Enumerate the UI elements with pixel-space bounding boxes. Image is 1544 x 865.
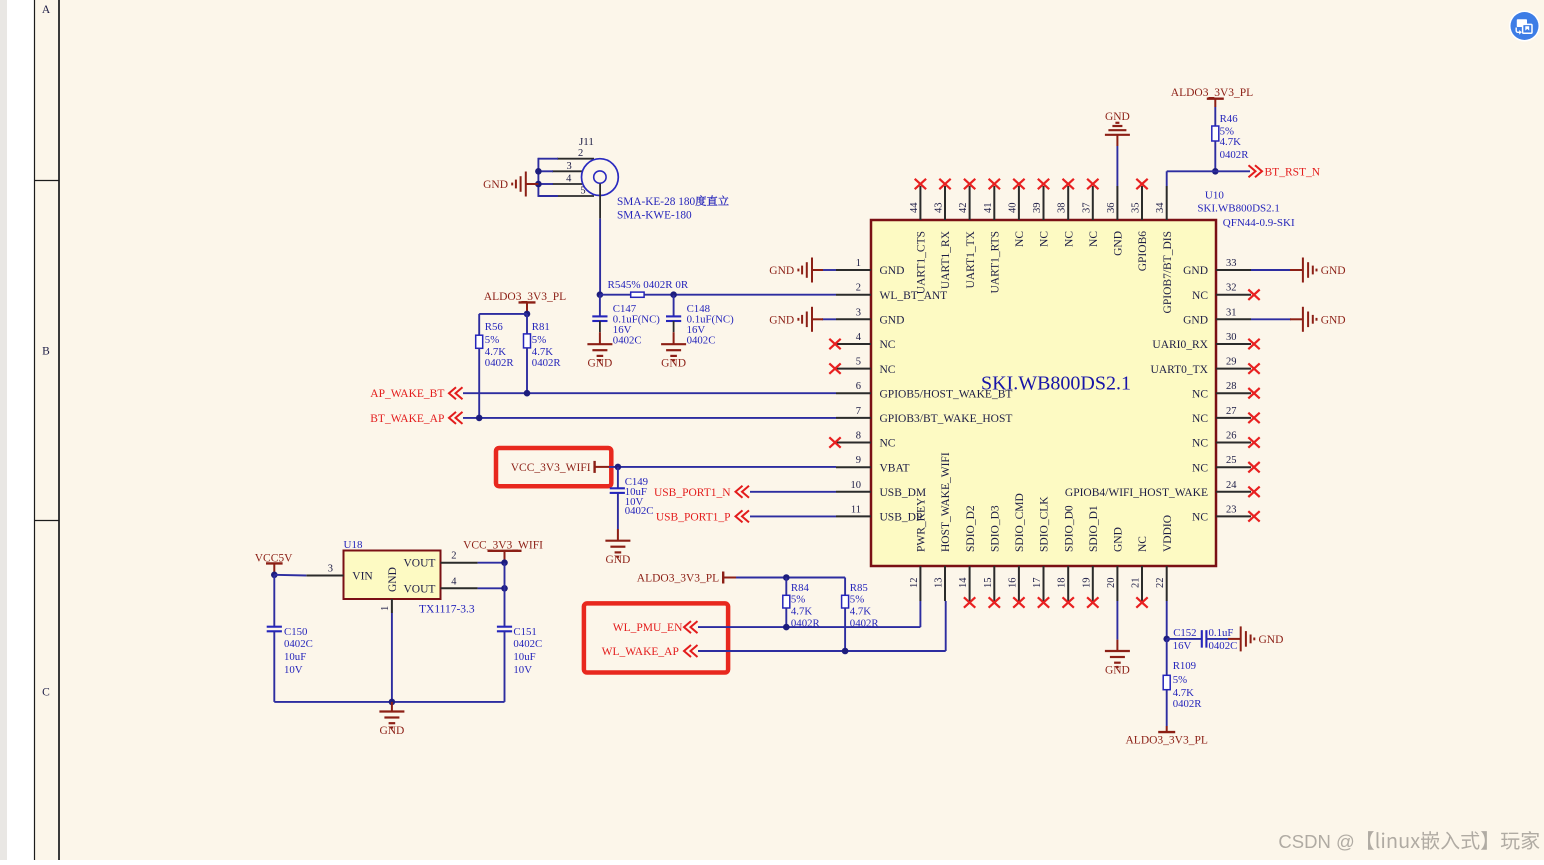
svg-text:U10: U10 — [1205, 189, 1224, 201]
wire node to BT_RST_N port — [1215, 170, 1250, 172]
capacitor C148 — [666, 295, 734, 347]
pin 36 GND — [1106, 186, 1125, 256]
connector J11 SMA — [552, 136, 618, 219]
svg-text:ALDO3_3V3_PL: ALDO3_3V3_PL — [1171, 87, 1253, 99]
svg-text:UART0_TX: UART0_TX — [1151, 364, 1209, 376]
svg-text:NC: NC — [1192, 388, 1208, 400]
svg-text:4.7K: 4.7K — [791, 606, 812, 618]
svg-text:WL_WAKE_AP: WL_WAKE_AP — [602, 646, 679, 658]
ground at J11 — [483, 172, 538, 197]
ground at pin 1 — [769, 258, 823, 283]
wire rail to R84/R85 — [736, 577, 845, 579]
junction VOUT2 node — [501, 559, 508, 566]
pin 42 UART1_TX — [958, 179, 977, 289]
pin 20 GND — [1106, 527, 1125, 601]
svg-text:UART1_RTS: UART1_RTS — [990, 231, 1002, 294]
svg-text:UART1_RX: UART1_RX — [940, 230, 952, 289]
capacitor C149 — [610, 467, 654, 529]
svg-text:25: 25 — [1226, 455, 1237, 466]
wire VOUT2 to node — [478, 562, 505, 564]
pin 9 VBAT — [836, 455, 910, 474]
svg-text:R109: R109 — [1173, 660, 1196, 672]
svg-text:C151: C151 — [513, 626, 536, 638]
svg-text:GPIOB4/WIFI_HOST_WAKE: GPIOB4/WIFI_HOST_WAKE — [1065, 487, 1208, 499]
label SMA-KE-28 180度直立 — [617, 195, 729, 208]
svg-text:NC: NC — [1192, 462, 1208, 474]
pin 17 SDIO_CLK — [1032, 496, 1051, 608]
ground under pin 20 — [1105, 640, 1130, 677]
svg-text:0402C: 0402C — [687, 334, 716, 346]
svg-text:43: 43 — [934, 203, 945, 214]
svg-text:SDIO_D3: SDIO_D3 — [990, 505, 1002, 552]
svg-text:R56: R56 — [485, 321, 504, 333]
wire J11 to node — [599, 219, 601, 295]
svg-text:4: 4 — [451, 576, 457, 587]
ground at pin 3 — [769, 307, 823, 332]
frame row label C — [42, 687, 50, 699]
svg-text:CSDN @: CSDN @ — [1278, 831, 1354, 852]
svg-text:0402C: 0402C — [284, 638, 313, 650]
power flag ALDO3_3V3_PL at R46 — [1171, 87, 1253, 107]
pin 44 UART1_CTS — [909, 179, 928, 294]
svg-text:GND: GND — [1183, 315, 1208, 327]
svg-text:NC: NC — [880, 339, 896, 351]
wire VOUT4 to node — [478, 587, 505, 589]
svg-text:NC: NC — [1063, 231, 1075, 247]
pin 24 GPIOB4/WIFI_HOST_WAKE — [1065, 480, 1260, 499]
svg-text:GND: GND — [587, 358, 612, 370]
ground under U18 — [379, 702, 404, 737]
junction R81 top — [524, 311, 531, 318]
svg-text:38: 38 — [1057, 203, 1068, 214]
pin 4 NC — [829, 332, 896, 351]
svg-text:NC: NC — [1192, 512, 1208, 524]
junction VOUT4 node — [501, 585, 508, 592]
wire BT_WAKE_AP to pin 7 — [463, 417, 836, 419]
wire pin 3 gnd — [822, 318, 836, 320]
wire node to R54 — [600, 294, 631, 296]
junction J11 pin3 — [535, 168, 542, 175]
svg-text:5%: 5% — [532, 334, 546, 346]
svg-text:17: 17 — [1032, 578, 1043, 589]
ground under C147 — [587, 332, 612, 369]
pin 16 SDIO_CMD — [1007, 493, 1026, 607]
wire pin 36 gnd — [1116, 146, 1118, 186]
pin 3 GND — [836, 307, 904, 326]
power flag VCC5V — [255, 552, 293, 575]
capacitor C150 — [267, 575, 313, 702]
svg-text:4.7K: 4.7K — [850, 606, 871, 618]
net port BT_RST_N — [1249, 165, 1321, 178]
net port USB_PORT1_N — [654, 486, 749, 499]
svg-text:SDIO_D1: SDIO_D1 — [1088, 505, 1100, 552]
label SMA-KWE-180 — [617, 210, 692, 222]
pin 43 UART1_RX — [934, 179, 953, 289]
svg-text:1: 1 — [380, 606, 391, 611]
svg-text:6: 6 — [856, 381, 861, 392]
pin 39 NC — [1032, 179, 1051, 247]
frame row label B — [42, 346, 50, 358]
svg-text:GND: GND — [661, 358, 686, 370]
svg-text:34: 34 — [1155, 202, 1166, 213]
svg-text:GND: GND — [605, 554, 630, 566]
svg-text:44: 44 — [909, 202, 920, 213]
svg-text:GND: GND — [769, 314, 794, 326]
svg-text:3: 3 — [856, 307, 861, 318]
svg-text:2: 2 — [578, 148, 583, 159]
ground under C148 — [661, 332, 686, 369]
svg-text:0402R: 0402R — [1173, 698, 1203, 710]
svg-text:GND: GND — [880, 315, 905, 327]
pin 26 NC — [1192, 431, 1260, 450]
svg-text:GND: GND — [483, 179, 508, 191]
pin 22 VDDIO — [1155, 515, 1174, 601]
svg-text:0.1uF: 0.1uF — [1209, 627, 1234, 639]
svg-text:5%: 5% — [791, 594, 805, 606]
svg-text:WL_BT_ANT: WL_BT_ANT — [880, 290, 948, 302]
pin 31 GND — [1183, 307, 1251, 326]
ground at pin 31 — [1290, 307, 1346, 332]
pin 38 NC — [1057, 179, 1076, 247]
svg-text:VIN: VIN — [352, 571, 373, 583]
pin 33 GND — [1183, 258, 1251, 277]
junction VBAT node — [615, 464, 622, 471]
svg-text:U18: U18 — [344, 539, 363, 551]
svg-text:GPIOB3/BT_WAKE_HOST: GPIOB3/BT_WAKE_HOST — [880, 413, 1013, 425]
pin 2 WL_BT_ANT — [836, 283, 947, 302]
svg-text:VOUT: VOUT — [404, 558, 436, 570]
svg-text:NC: NC — [1137, 536, 1149, 552]
pin 4 VOUT — [441, 576, 478, 588]
svg-text:R84: R84 — [791, 582, 810, 594]
svg-text:11: 11 — [851, 504, 861, 515]
svg-text:0402R: 0402R — [532, 357, 562, 369]
junction R56 bottom — [476, 415, 483, 422]
svg-text:30: 30 — [1226, 332, 1237, 343]
junction VDDIO node — [1163, 636, 1170, 643]
svg-text:27: 27 — [1226, 406, 1237, 417]
svg-text:29: 29 — [1226, 357, 1237, 368]
pin 40 NC — [1007, 179, 1026, 247]
svg-text:GND: GND — [880, 265, 905, 277]
pin 30 UARI0_RX — [1152, 332, 1259, 351]
svg-text:19: 19 — [1081, 578, 1092, 589]
pin 32 NC — [1192, 283, 1260, 302]
svg-text:10: 10 — [851, 480, 862, 491]
junction ground rail — [389, 699, 396, 706]
svg-text:C150: C150 — [284, 626, 307, 638]
pin 8 NC — [829, 431, 896, 450]
svg-text:C152: C152 — [1173, 627, 1196, 639]
svg-text:UART1_CTS: UART1_CTS — [916, 231, 928, 294]
svg-text:VOUT: VOUT — [404, 583, 436, 595]
power flag ALDO3_3V3_PL bottom — [1125, 726, 1207, 747]
svg-text:C: C — [42, 687, 50, 699]
svg-text:0402R: 0402R — [485, 357, 515, 369]
blue translate icon — [1509, 11, 1540, 42]
svg-text:GND: GND — [1105, 664, 1130, 676]
svg-text:BT_RST_N: BT_RST_N — [1265, 167, 1321, 179]
power flag ALDO3_3V3_PL mid — [637, 572, 736, 585]
net port USB_PORT1_P — [656, 510, 749, 523]
wire USB_PORT1_N to pin 10 — [750, 491, 836, 493]
svg-text:3: 3 — [567, 161, 572, 172]
svg-text:32: 32 — [1226, 283, 1237, 294]
IC U18 TX1117-3.3 body — [344, 539, 475, 616]
svg-text:QFN44-0.9-SKI: QFN44-0.9-SKI — [1223, 217, 1295, 229]
svg-text:22: 22 — [1155, 578, 1166, 589]
svg-text:28: 28 — [1226, 381, 1237, 392]
wire VOUT rail down — [504, 563, 506, 627]
junction R85 bottom — [842, 648, 849, 655]
svg-text:GND: GND — [1259, 634, 1284, 646]
svg-text:GND: GND — [379, 725, 404, 737]
svg-text:R46: R46 — [1220, 113, 1239, 125]
svg-text:GND: GND — [769, 265, 794, 277]
svg-text:4: 4 — [856, 332, 862, 343]
svg-text:1: 1 — [856, 258, 861, 269]
svg-text:NC: NC — [1192, 413, 1208, 425]
svg-text:GPIOB7/BT_DIS: GPIOB7/BT_DIS — [1162, 231, 1174, 313]
resistor R84 — [783, 578, 821, 630]
wire node to pin 34 — [1167, 171, 1216, 186]
junction J11 pin4 — [535, 181, 542, 188]
svg-text:GND: GND — [1321, 265, 1346, 277]
pin 18 SDIO_D0 — [1057, 505, 1076, 608]
svg-text:31: 31 — [1226, 307, 1237, 318]
net port WL_PMU_EN — [613, 621, 698, 634]
svg-text:SKI.WB800DS2.1: SKI.WB800DS2.1 — [1197, 202, 1280, 214]
pin 35 GPIOB6 — [1131, 179, 1150, 271]
pin 13 HOST_WAKE_WIFI — [934, 452, 953, 601]
svg-text:42: 42 — [958, 203, 969, 214]
svg-text:3: 3 — [328, 564, 333, 575]
svg-text:2: 2 — [856, 283, 861, 294]
wire WL_PMU_EN to pin 12 — [698, 601, 920, 627]
svg-text:24: 24 — [1226, 480, 1237, 491]
wire pin 20 to ground — [1116, 601, 1118, 640]
svg-text:39: 39 — [1032, 203, 1043, 214]
pin 10 USB_DM — [836, 480, 926, 499]
svg-text:36: 36 — [1106, 203, 1117, 214]
power flag VCC_3V3_WIFI above U18 — [463, 540, 543, 563]
junction antenna node — [597, 291, 604, 298]
svg-text:33: 33 — [1226, 258, 1237, 269]
svg-text:0402C: 0402C — [1209, 640, 1238, 652]
svg-text:23: 23 — [1226, 504, 1237, 515]
pin 12 PWR_KEY — [909, 497, 928, 601]
svg-text:NC: NC — [1192, 290, 1208, 302]
svg-text:UARI0_RX: UARI0_RX — [1152, 339, 1208, 351]
svg-text:ALDO3_3V3_PL: ALDO3_3V3_PL — [484, 291, 566, 303]
svg-text:35: 35 — [1131, 203, 1142, 214]
svg-text:USB_PORT1_P: USB_PORT1_P — [656, 511, 731, 523]
ground right of C152 — [1241, 626, 1284, 651]
wire pin 22 VDDIO down — [1166, 601, 1168, 639]
svg-text:GND: GND — [1105, 111, 1130, 123]
svg-text:10V: 10V — [513, 664, 532, 676]
svg-text:VCC_3V3_WIFI: VCC_3V3_WIFI — [511, 462, 591, 474]
svg-text:PWR_KEY: PWR_KEY — [916, 497, 928, 552]
pin 5 NC — [829, 357, 896, 376]
frame row label A — [42, 4, 51, 16]
svg-text:NC: NC — [1039, 231, 1051, 247]
pin 3 VIN — [306, 564, 343, 576]
wire R54 to pin 2 — [644, 294, 836, 296]
pin 34 GPIOB7/BT_DIS — [1155, 186, 1174, 313]
svg-text:GPIOB6: GPIOB6 — [1137, 231, 1149, 272]
pin 1 GND U18 — [380, 599, 392, 613]
frame border lines — [34, 0, 59, 860]
svg-text:0402C: 0402C — [513, 638, 542, 650]
svg-text:16: 16 — [1007, 578, 1018, 589]
svg-text:BT_WAKE_AP: BT_WAKE_AP — [370, 413, 444, 425]
svg-text:TX1117-3.3: TX1117-3.3 — [419, 604, 475, 616]
wire pin 33 gnd — [1251, 269, 1291, 271]
wire rail to R56 — [479, 314, 527, 335]
resistor R46 — [1212, 107, 1249, 171]
svg-text:USB_DM: USB_DM — [880, 487, 927, 499]
wire to pin 9 VBAT — [609, 466, 836, 468]
pin 11 USB_DP — [836, 504, 922, 523]
pin 41 UART1_RTS — [983, 179, 1002, 294]
wire pin 31 gnd — [1251, 318, 1291, 320]
red annotation box VCC_3V3_WIFI — [496, 448, 611, 486]
capacitor C147 — [592, 295, 660, 347]
svg-text:A: A — [42, 4, 51, 16]
net port WL_WAKE_AP — [602, 645, 698, 658]
svg-text:40: 40 — [1007, 203, 1018, 214]
pin 29 UART0_TX — [1151, 357, 1260, 376]
junction R81 bottom — [524, 390, 531, 397]
power flag ALDO3_3V3_PL at R56/R81 — [484, 291, 566, 314]
resistor R109 — [1163, 639, 1202, 726]
svg-text:HOST_WAKE_WIFI: HOST_WAKE_WIFI — [940, 452, 952, 552]
svg-text:4.7K: 4.7K — [1220, 136, 1241, 148]
svg-text:B: B — [42, 346, 50, 358]
svg-text:J11: J11 — [579, 136, 594, 148]
svg-text:UART1_TX: UART1_TX — [965, 230, 977, 288]
pin 1 GND — [836, 258, 904, 277]
svg-text:GND: GND — [1321, 314, 1346, 326]
junction R84 bottom — [783, 624, 790, 631]
pin 14 SDIO_D2 — [958, 505, 977, 608]
net port BT_WAKE_AP — [370, 412, 462, 425]
ground above pin 36 — [1105, 111, 1130, 146]
svg-text:21: 21 — [1131, 578, 1142, 589]
pin 7 GPIOB3/BT_WAKE_HOST — [836, 406, 1012, 425]
pin 21 NC — [1131, 536, 1150, 608]
svg-text:9: 9 — [856, 455, 861, 466]
svg-text:SMA-KWE-180: SMA-KWE-180 — [617, 210, 692, 222]
pin 37 NC — [1081, 179, 1100, 247]
wire U18 ground rail — [274, 613, 504, 702]
junction VCC5V node — [271, 572, 278, 579]
junction R84 top — [783, 574, 790, 581]
net port AP_WAKE_BT — [370, 387, 462, 400]
svg-text:12: 12 — [909, 578, 920, 589]
svg-text:5%: 5% — [485, 334, 499, 346]
svg-text:0402R: 0402R — [1220, 149, 1250, 161]
svg-text:0402C: 0402C — [613, 334, 642, 346]
svg-text:VBAT: VBAT — [880, 462, 910, 474]
resistor R56 — [476, 321, 515, 418]
red annotation box WL_PMU_EN/WL_WAKE_AP — [584, 603, 728, 672]
svg-text:GND: GND — [1183, 265, 1208, 277]
wire pin 1 gnd — [822, 269, 836, 271]
power flag VCC_3V3_WIFI at VBAT — [511, 461, 609, 474]
svg-text:13: 13 — [934, 578, 945, 589]
svg-text:4: 4 — [566, 174, 572, 185]
svg-text:10uF: 10uF — [284, 651, 306, 663]
svg-text:26: 26 — [1226, 431, 1237, 442]
svg-text:41: 41 — [983, 203, 994, 214]
IC U10 reference labels — [1197, 189, 1295, 229]
svg-text:VDDIO: VDDIO — [1162, 515, 1174, 552]
ground at pin 33 — [1290, 258, 1346, 283]
pin 28 NC — [1192, 381, 1260, 400]
svg-text:SDIO_CLK: SDIO_CLK — [1039, 496, 1051, 552]
svg-text:AP_WAKE_BT: AP_WAKE_BT — [370, 388, 444, 400]
capacitor C151 — [497, 626, 542, 702]
svg-text:4.7K: 4.7K — [1173, 687, 1194, 699]
svg-text:SMA-KE-28 180: SMA-KE-28 180 — [617, 196, 695, 208]
svg-text:8: 8 — [856, 431, 861, 442]
IC U10 SKI.WB800DS2.1 body — [871, 220, 1216, 566]
svg-text:SDIO_D0: SDIO_D0 — [1063, 505, 1075, 552]
svg-text:0402C: 0402C — [625, 505, 654, 517]
svg-text:R545% 0402R 0R: R545% 0402R 0R — [608, 279, 689, 291]
svg-text:5%: 5% — [850, 594, 864, 606]
svg-text:10uF: 10uF — [513, 651, 535, 663]
ground under C149 — [605, 529, 630, 566]
wire J11 bracket — [538, 158, 558, 197]
svg-text:NC: NC — [1014, 231, 1026, 247]
resistor R81 — [524, 314, 562, 393]
svg-text:R85: R85 — [850, 582, 868, 594]
svg-text:GND: GND — [1113, 527, 1125, 552]
resistor R85 — [842, 578, 880, 652]
svg-text:USB_PORT1_N: USB_PORT1_N — [654, 487, 731, 499]
svg-text:10V: 10V — [284, 664, 303, 676]
svg-text:18: 18 — [1057, 578, 1068, 589]
resistor R54 0R — [608, 279, 689, 298]
pin 19 SDIO_D1 — [1081, 505, 1100, 608]
svg-text:SDIO_D2: SDIO_D2 — [965, 505, 977, 552]
svg-text:NC: NC — [1192, 438, 1208, 450]
svg-text:NC: NC — [1088, 231, 1100, 247]
svg-text:14: 14 — [958, 577, 969, 588]
wire WL_WAKE_AP to pin 13 — [698, 601, 946, 651]
pin 27 NC — [1192, 406, 1260, 425]
svg-text:GND: GND — [1113, 231, 1125, 256]
svg-text:7: 7 — [856, 406, 861, 417]
junction C148 node — [670, 291, 677, 298]
svg-text:NC: NC — [880, 364, 896, 376]
wire AP_WAKE_BT to pin 6 — [463, 392, 836, 394]
watermark CSDN — [1278, 831, 1539, 852]
svg-text:SDIO_CMD: SDIO_CMD — [1014, 493, 1026, 552]
capacitor C152 — [1167, 627, 1241, 652]
svg-text:20: 20 — [1106, 578, 1117, 589]
svg-text:GND: GND — [387, 567, 399, 592]
pin 15 SDIO_D3 — [983, 505, 1002, 608]
svg-text:WL_PMU_EN: WL_PMU_EN — [613, 622, 683, 634]
pin 2 VOUT — [441, 551, 478, 563]
svg-text:R81: R81 — [532, 321, 550, 333]
wire USB_PORT1_P to pin 11 — [750, 515, 836, 517]
junction BT_RST_N node — [1212, 168, 1219, 175]
